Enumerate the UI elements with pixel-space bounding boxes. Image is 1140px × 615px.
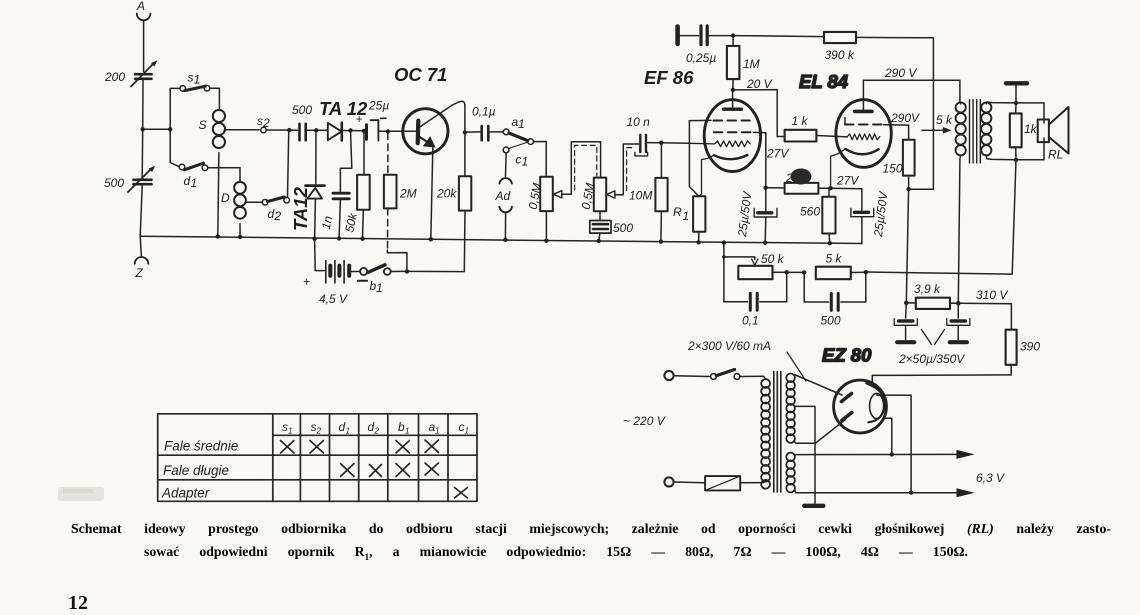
svg-text:d: d (339, 420, 346, 434)
wire coil D tap to d2 (246, 201, 263, 203)
node antenna junction (141, 127, 145, 131)
wire antenna down to node (140, 20, 143, 236)
svg-text:560: 560 (800, 205, 820, 219)
wire wiper2 shield (dashed) (627, 148, 635, 191)
chassis bar at 0,25u (675, 27, 680, 45)
svg-text:10 n: 10 n (627, 115, 651, 129)
svg-text:1: 1 (518, 117, 525, 131)
svg-text:Adapter: Adapter (161, 486, 210, 501)
wire EF86 screen down (753, 132, 766, 210)
svg-text:2M: 2M (399, 187, 417, 201)
wire 20k bottom to battery minus rail (407, 211, 465, 272)
label 2x50u/350V with pointers (898, 330, 965, 367)
svg-text:5 k: 5 k (936, 113, 953, 127)
svg-text:Ad: Ad (495, 189, 511, 203)
wire switch to primary (740, 376, 766, 379)
wire coil S tap to s2 (225, 129, 260, 131)
svg-text:4,5 V: 4,5 V (319, 292, 348, 306)
wire wiper1 to pot2 top (solid) (562, 142, 601, 195)
svg-text:500: 500 (613, 221, 633, 235)
svg-text:10M: 10M (629, 189, 652, 203)
wire screen node down to 3,9k (906, 189, 908, 303)
transistor OC71 (394, 64, 465, 154)
tube EZ80 (834, 380, 887, 433)
wire HV top to anode 1 (794, 375, 842, 396)
wire screen node to 390k (909, 38, 934, 189)
svg-text:d: d (184, 174, 191, 188)
chassis bar above speaker (1006, 83, 1027, 103)
HV secondary winding 2x300V (786, 374, 795, 443)
switch s2 (257, 114, 270, 133)
table X marks (281, 440, 468, 498)
svg-text:EL 84: EL 84 (799, 71, 848, 92)
svg-text:S: S (199, 118, 207, 132)
heater winding 6.3V (786, 453, 795, 493)
caption line 2 (144, 544, 968, 562)
diode TA12 (series) (319, 98, 368, 140)
capacitor 0,25u (686, 26, 716, 65)
svg-text:A: A (136, 0, 145, 13)
svg-text:OC 71: OC 71 (394, 64, 447, 85)
capacitor 50u/350V (second) (947, 303, 970, 342)
svg-text:R: R (673, 205, 682, 219)
wire grid line down to R1 (689, 121, 699, 197)
capacitor 10n (627, 115, 651, 156)
svg-text:6,3 V: 6,3 V (976, 471, 1005, 485)
svg-text:1: 1 (522, 155, 529, 169)
wire a1 to pot 1 (534, 142, 547, 177)
caption line 1 (71, 521, 1111, 537)
variable capacitor 200 (104, 60, 158, 86)
adapter input Ad (495, 153, 512, 240)
capacitor 25u/50V (EF86) (735, 190, 777, 243)
wire to fuse (674, 481, 706, 484)
svg-text:2: 2 (374, 427, 380, 436)
switch b1 (360, 265, 391, 295)
resistor 560 (800, 188, 836, 243)
variable capacitor 500 (104, 166, 155, 192)
svg-text:1: 1 (683, 209, 690, 223)
svg-text:2×300 V/60 mA: 2×300 V/60 mA (687, 339, 771, 353)
wire s1 loop (170, 88, 219, 129)
table row labels (161, 439, 238, 501)
svg-text:+: + (356, 112, 363, 126)
top supply rail (709, 36, 825, 37)
svg-text:0,1: 0,1 (742, 314, 759, 328)
resistor 50k (shunt) (342, 131, 369, 239)
resistor R1 (673, 196, 705, 242)
capacitor 500 (series input) (292, 103, 312, 140)
wire 500 cap to diode (307, 129, 328, 131)
svg-text:390: 390 (1020, 340, 1040, 354)
resistor 3,9k (906, 282, 958, 309)
wire to s1 branch (143, 128, 171, 130)
capacitor 0,1 (across 50k) (724, 272, 787, 327)
wire bar to 0.25u (680, 35, 699, 37)
antenna A terminal (136, 0, 150, 20)
wiper arrow pot 2 (606, 191, 615, 198)
resistor 390 (1006, 330, 1041, 375)
6,3V heater line top with arrow (795, 450, 975, 459)
resistor 5k (feedback) (816, 252, 866, 280)
svg-text:20k: 20k (436, 187, 457, 201)
wire collector node to 0.1u (465, 131, 480, 133)
resistor 20k (collector load) (436, 176, 471, 210)
wire HV bottom to anode 2 (794, 420, 845, 444)
potentiometer 0,5M (second) (579, 178, 607, 221)
svg-text:1: 1 (435, 427, 439, 436)
wire coil D bottom to bus (239, 224, 241, 237)
wire d2 up to s2 node (288, 130, 289, 197)
resistor 2M (dashed leads) (384, 133, 417, 271)
label 2x300V/60mA with pointer (687, 339, 806, 381)
mains terminal bottom (664, 477, 673, 486)
wire 390 to EZ80 cathode (872, 375, 1011, 387)
wire s2 to 500 cap (266, 129, 297, 131)
wire EL84 screen to 150 (884, 125, 909, 140)
tube EL84 (831, 80, 892, 188)
ground bar (centre tap) (804, 504, 823, 508)
svg-text:25µ: 25µ (368, 99, 389, 113)
main ground bus (140, 236, 862, 243)
svg-text:1n: 1n (319, 214, 336, 230)
node EL84 cathode (828, 186, 832, 190)
wire secondary to speaker (987, 102, 1016, 160)
svg-text:27V: 27V (766, 147, 789, 161)
svg-text:EZ 80: EZ 80 (822, 345, 872, 366)
wire 310V (958, 303, 1011, 330)
switch d1 (179, 163, 208, 190)
svg-text:Z: Z (135, 266, 144, 280)
capacitor 0,1u (coupling) (472, 105, 496, 141)
wire bus drop to 50k wiper (723, 243, 725, 302)
svg-text:1: 1 (346, 427, 350, 436)
switch table frame (158, 414, 477, 502)
resistor 150 (883, 140, 915, 190)
wire to mains switch (674, 375, 711, 378)
svg-text:b: b (398, 420, 405, 434)
svg-text:500: 500 (292, 103, 312, 117)
wire heater pin to 6,3V top line (883, 418, 892, 454)
fuse (705, 476, 740, 490)
svg-text:5 k: 5 k (826, 252, 843, 266)
svg-text:Fale średnie: Fale średnie (164, 439, 238, 454)
svg-text:50k: 50k (342, 211, 360, 234)
svg-text:1: 1 (405, 427, 409, 436)
wire 50k right end node (773, 271, 805, 273)
power transformer primary winding (761, 379, 770, 489)
svg-text:D: D (221, 191, 230, 205)
ground Z terminal (135, 236, 149, 280)
capacitor 500 (trimmer below pot2) (590, 221, 634, 241)
wire coil S bottom to bus (218, 153, 219, 237)
switch a1 (503, 115, 533, 145)
svg-text:1: 1 (465, 427, 469, 436)
capacitor 500 (across 5k) (804, 272, 866, 327)
wire HV centre tap to ground (795, 406, 815, 503)
svg-text:d: d (368, 420, 375, 434)
wire speaker line down to feedback (866, 160, 1016, 274)
potentiometer 0,5M (first) (526, 177, 553, 241)
svg-text:2: 2 (262, 116, 270, 130)
table column headers (282, 420, 469, 436)
svg-text:d: d (268, 207, 275, 221)
wire b1 to minus node (391, 270, 407, 272)
svg-text:0,5M: 0,5M (526, 182, 544, 211)
svg-text:2: 2 (274, 209, 282, 223)
switch s1 (180, 71, 210, 92)
wire 10n to grid node (647, 142, 689, 145)
coil S (199, 110, 225, 148)
svg-text:50 k: 50 k (761, 252, 785, 266)
svg-text:500: 500 (104, 176, 124, 190)
wire collector to output node (464, 106, 466, 177)
svg-text:0,1µ: 0,1µ (472, 105, 496, 119)
wire 25u to base (379, 130, 416, 132)
capacitor 25u/50V (EL84) (831, 188, 891, 243)
wire heater pin to 6,3V bottom line (877, 395, 911, 493)
svg-text:390 k: 390 k (825, 48, 855, 62)
svg-text:RL: RL (1048, 148, 1063, 162)
potentiometer 50k (tone) (724, 252, 785, 279)
resistor 2n (smudged label) (766, 169, 831, 194)
mains terminal top (664, 371, 673, 380)
svg-text:290V: 290V (890, 111, 920, 125)
svg-text:2×50µ/350V: 2×50µ/350V (898, 352, 965, 366)
resistor 1k (across secondary) (1010, 103, 1038, 160)
power transformer core (774, 372, 781, 493)
svg-text:25µ/50V: 25µ/50V (871, 190, 891, 238)
mains switch (711, 370, 740, 380)
wire diode to 25u (343, 130, 365, 132)
svg-text:1 k: 1 k (792, 114, 809, 128)
capacitor 25u electrolytic (series) (356, 99, 390, 141)
resistor 1M (727, 36, 760, 90)
wire emitter down to bus (431, 145, 433, 240)
svg-text:0,25µ: 0,25µ (686, 51, 716, 65)
svg-text:1: 1 (288, 427, 292, 436)
svg-text:150: 150 (883, 162, 903, 176)
switch contact c1 (503, 143, 528, 169)
svg-text:25µ/50V: 25µ/50V (735, 190, 755, 238)
capacitor 1n (shunt) with stepped lead (319, 130, 352, 238)
resistor 10M (629, 143, 668, 242)
coil D (221, 182, 246, 219)
svg-text:200: 200 (104, 70, 125, 84)
loudspeaker RL (1016, 103, 1069, 162)
svg-text:TA12: TA12 (290, 186, 311, 231)
battery 4,5V (303, 239, 367, 306)
svg-text:27V: 27V (836, 174, 859, 188)
tube EF86 (689, 90, 760, 196)
resistor 390k (824, 32, 933, 62)
svg-text:3,9 k: 3,9 k (914, 282, 941, 296)
wire primary bottom to 310V (958, 159, 960, 303)
wire fuse to primary (740, 481, 765, 483)
svg-text:290 V: 290 V (884, 66, 917, 80)
wire d1 branch (170, 129, 240, 181)
svg-text:1M: 1M (743, 57, 760, 71)
svg-text:~ 220 V: ~ 220 V (623, 414, 666, 428)
svg-text:EF 86: EF 86 (644, 67, 694, 88)
diode TA12 (shunt, vertical) (290, 133, 324, 239)
svg-text:+: + (303, 275, 310, 289)
wire wiper1 shield (dashed) (575, 145, 597, 190)
page number 12 (68, 592, 88, 615)
switch d2 (262, 197, 289, 223)
svg-text:1: 1 (194, 73, 201, 87)
wiper arrow pot 1 (553, 191, 562, 198)
svg-text:500: 500 (821, 314, 841, 328)
svg-text:1k: 1k (1024, 122, 1038, 136)
wire 20V anode line (733, 90, 785, 137)
capacitor 50u/350V (first) (894, 303, 917, 342)
wire wiper2 to 10n (solid) (615, 144, 639, 195)
svg-text:310 V: 310 V (976, 288, 1008, 302)
wire 0.1u to a1 (490, 131, 504, 133)
output transformer 5k (922, 100, 991, 163)
resistor 1k (EL84 grid) (785, 114, 848, 142)
6,3V heater line bottom with arrow (795, 488, 975, 497)
svg-text:1: 1 (376, 281, 383, 295)
svg-text:1: 1 (191, 176, 198, 190)
svg-text:Fale długie: Fale długie (163, 463, 229, 478)
wire EL84 anode 290V (863, 80, 960, 102)
svg-text:2: 2 (316, 427, 322, 436)
svg-text:20 V: 20 V (746, 77, 773, 91)
